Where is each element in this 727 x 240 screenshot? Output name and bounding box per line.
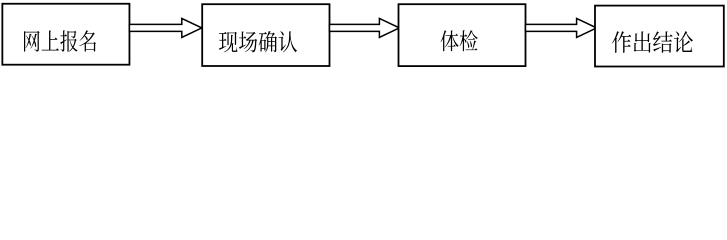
- text 体检: [441, 30, 478, 51]
- text 作出结论: [612, 31, 693, 53]
- flowchart: 网上报名 → 现场确认 → 体检 → 作出结论: [0, 0, 727, 70]
- text 网上报名: [24, 30, 96, 51]
- arrow 3 (体检 → 作出结论): [526, 18, 597, 37]
- text 现场确认: [219, 31, 297, 52]
- process box 现场确认: [202, 4, 329, 66]
- process box 体检: [399, 4, 526, 66]
- arrow 2 (现场确认 → 体检): [330, 18, 400, 37]
- arrow 1 (网上报名 → 现场确认): [129, 18, 201, 37]
- process box 作出结论: [595, 6, 724, 67]
- process box 网上报名: [2, 4, 129, 65]
